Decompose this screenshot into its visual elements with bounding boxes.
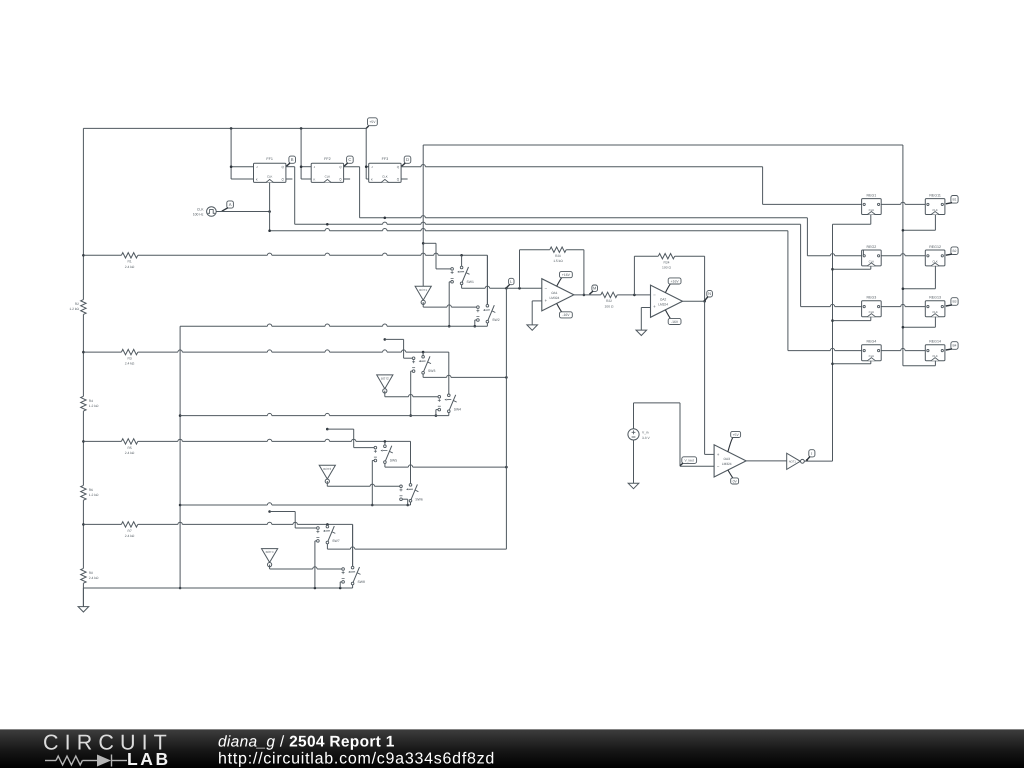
svg-text:R20: R20 (555, 254, 561, 258)
junction G2 tap (384, 338, 387, 341)
wire FF1 CLK drop (269, 182, 271, 230)
wire G1 bottom (180, 325, 267, 327)
resistor R3 2.4k row (82, 351, 85, 354)
wire FF2 JK feed (300, 128, 302, 179)
svg-text:diana_g / 2504 Report 1: diana_g / 2504 Report 1 (218, 734, 395, 751)
svg-text:SW3: SW3 (428, 369, 435, 373)
switch SW5 (384, 445, 387, 448)
svg-text:−: − (544, 286, 547, 291)
svg-text:100 Hz: 100 Hz (193, 213, 204, 217)
register REG1 (862, 199, 882, 215)
buffer BOT2 (377, 375, 393, 389)
svg-text:B3: B3 (952, 300, 956, 304)
wire SW1 minus drop (449, 281, 451, 283)
svg-text:−: − (653, 292, 656, 297)
svg-text:REG4: REG4 (867, 340, 877, 344)
svg-text:CLK: CLK (382, 175, 388, 179)
node flag N (707, 291, 713, 297)
wire top REG clock feed (422, 145, 424, 286)
voltage source V_in 3.8V (628, 429, 639, 440)
svg-text:BOT3: BOT3 (323, 467, 331, 471)
svg-text:A: A (229, 202, 232, 207)
svg-text:2.4 kΩ: 2.4 kΩ (125, 362, 135, 366)
wire L to OA1 (506, 287, 541, 289)
svg-text:+16V: +16V (562, 273, 571, 277)
wire OA3 out (746, 460, 787, 462)
wire SW1 top stub (461, 255, 463, 266)
power flag 0V OA3 (728, 470, 733, 478)
wire SW7 pivot line (326, 544, 328, 549)
svg-text:-16V: -16V (562, 313, 570, 317)
wire REG12 clk loop (934, 266, 936, 289)
wire OA2 out (683, 300, 705, 302)
switch SW7 (326, 525, 329, 528)
svg-text:+: + (653, 304, 656, 309)
power flag +16V OA1 (557, 277, 562, 286)
svg-text:R24: R24 (663, 261, 669, 265)
node flag I (809, 450, 815, 457)
wire REG1 Q to REG11 D (881, 203, 901, 205)
svg-text:SW5: SW5 (390, 459, 397, 463)
inverter NOT1 (787, 453, 801, 469)
wire A bus (270, 230, 326, 232)
wire N net to OA3 (704, 301, 706, 454)
svg-text:LAB: LAB (127, 749, 171, 769)
resistor R2 1.2k (81, 300, 86, 315)
svg-text:V_test: V_test (685, 458, 694, 462)
register REG2 (862, 250, 882, 266)
svg-text:M: M (593, 286, 596, 291)
resistor R24 100 feedback (633, 256, 635, 295)
wire SW2 top feed (486, 255, 488, 304)
junction G4 tap (268, 510, 271, 513)
svg-text:+: + (544, 298, 547, 303)
switch SW4 (448, 394, 451, 397)
svg-text:N: N (708, 291, 711, 296)
svg-text:-16V: -16V (671, 320, 679, 324)
svg-text:+16V: +16V (671, 279, 680, 283)
svg-text:FF2: FF2 (324, 157, 331, 161)
flip-flop FF2 (311, 163, 343, 182)
svg-text:REG13: REG13 (929, 296, 941, 300)
svg-text:V_in: V_in (642, 431, 649, 435)
wire REG4 clk loop (870, 361, 872, 364)
svg-text:2.4 kΩ: 2.4 kΩ (89, 576, 99, 580)
svg-text:REG11: REG11 (929, 193, 941, 197)
svg-text:CLK: CLK (267, 175, 273, 179)
wire +5V rail (83, 127, 366, 129)
svg-text:−: − (717, 464, 720, 469)
svg-text:LM324: LM324 (550, 296, 560, 300)
wire SW3 top stub (422, 352, 424, 355)
register REG3 (862, 301, 882, 317)
wire SW3 minus drop (411, 370, 413, 372)
resistor R8 2.4k (81, 568, 86, 583)
svg-text:CLK: CLK (325, 175, 331, 179)
svg-text:SW6: SW6 (415, 497, 422, 501)
wire SW7 minus drop (315, 540, 317, 542)
svg-text:SW8: SW8 (358, 580, 365, 584)
svg-text:OA1: OA1 (551, 291, 558, 295)
resistor R1 2.4k row (82, 254, 85, 257)
ground V_in (628, 483, 639, 488)
svg-text:BOT1: BOT1 (419, 288, 427, 292)
node flag V_test (682, 457, 697, 464)
wire SW2 pivot drop (486, 323, 488, 326)
svg-text:FF1: FF1 (266, 157, 273, 161)
wire G3 staple (327, 428, 353, 430)
reg2 stub (862, 250, 864, 255)
register REG14 (925, 345, 945, 361)
junction rail-FF2 (300, 127, 303, 130)
wire G3 bottom (180, 504, 267, 506)
svg-text:K: K (313, 177, 315, 181)
svg-text:NOT1: NOT1 (789, 461, 797, 464)
svg-text:+: + (717, 452, 720, 457)
wire REG13 clk loop (934, 317, 936, 328)
junction bus REG13 (902, 326, 905, 329)
svg-text:http://circuitlab.com/c9a334s6: http://circuitlab.com/c9a334s6df8zd (218, 751, 495, 768)
wire L net (461, 285, 463, 289)
ground OA2 (636, 330, 647, 335)
svg-text:REG1: REG1 (867, 193, 877, 197)
junction G1 tap (422, 242, 425, 245)
buffer BOT1 (415, 286, 431, 300)
svg-text:B: B (291, 157, 294, 162)
wire G1 staple (423, 242, 436, 244)
wire REG3 Q to REG13 D (881, 306, 901, 308)
resistor R5 2.4k row (82, 440, 85, 443)
wire SW5 pivot line (384, 463, 386, 467)
switch SW2 (486, 304, 489, 307)
node flag A (227, 201, 234, 208)
wire bottom rail (83, 587, 352, 589)
node flag C (347, 156, 354, 163)
wire G2 staple (385, 338, 404, 340)
svg-text:R2: R2 (75, 302, 79, 306)
svg-text:D: D (406, 157, 409, 162)
svg-text:REG3: REG3 (867, 296, 877, 300)
wire REG3 clk loop (870, 317, 872, 321)
junction CLK node (268, 210, 271, 213)
op-amp OA1 LM324 (542, 279, 574, 311)
svg-text:R22: R22 (606, 299, 612, 303)
wire G4 staple (270, 511, 296, 513)
ground ladder (82, 588, 84, 607)
svg-text:LM324: LM324 (722, 462, 732, 466)
buffer BOT4 (262, 549, 278, 563)
wire OA1 out (574, 294, 601, 296)
wire C net FF2Q (344, 166, 360, 168)
svg-text:2.4 kΩ: 2.4 kΩ (125, 265, 135, 269)
svg-text:R4: R4 (89, 399, 93, 403)
wire FF3 JK feed (365, 128, 367, 179)
op-amp OA2 LM324 (651, 285, 683, 317)
node flag B (289, 156, 296, 163)
wire NOT1 out (804, 460, 832, 462)
switch SW3 (422, 356, 425, 359)
wire BOT4 out (269, 565, 271, 569)
junction bus REG11 (902, 229, 905, 232)
wire CLK to FF1 (216, 211, 269, 213)
svg-text:B1: B1 (952, 197, 956, 201)
node flag L (509, 278, 514, 284)
wire B net FF1Q (286, 166, 295, 168)
switch SW6 (409, 484, 412, 487)
svg-text:B4: B4 (952, 344, 956, 348)
svg-text:REG12: REG12 (929, 245, 941, 249)
svg-text:1.2 kΩ: 1.2 kΩ (89, 493, 99, 497)
svg-text:R7: R7 (127, 529, 131, 533)
wire ladder rail (82, 128, 84, 299)
wire BOT2 out (384, 391, 386, 397)
switch SW8 (351, 566, 354, 569)
svg-text:BOT4: BOT4 (266, 550, 274, 554)
svg-text:OA3: OA3 (724, 457, 731, 461)
svg-text:BOT2: BOT2 (381, 377, 389, 381)
svg-text:OA2: OA2 (660, 297, 667, 301)
svg-text:100 Ω: 100 Ω (662, 266, 671, 270)
op-amp OA3 LM324 (714, 445, 746, 477)
svg-text:1.2 kΩ: 1.2 kΩ (69, 307, 79, 311)
resistor R7 2.4k row (82, 523, 85, 526)
wire ground return vertical (179, 326, 181, 588)
wire A drop to REG4 (787, 231, 789, 351)
svg-text:R5: R5 (127, 446, 131, 450)
wire D net FF3Q (401, 166, 421, 168)
clock source CLK1 100 Hz (207, 207, 217, 217)
junction rail-FF1 (230, 127, 233, 130)
register REG4 (862, 345, 882, 361)
wire OA1 +in gnd (532, 300, 542, 302)
wire B bus (295, 223, 383, 225)
wire SW4 minus loop (436, 409, 438, 411)
power flag +5V OA3 (728, 437, 733, 452)
node flag B4 (951, 342, 958, 350)
svg-text:2.4 kΩ: 2.4 kΩ (125, 451, 135, 455)
power flag +5V (366, 126, 369, 128)
wire G2 bottom (180, 415, 267, 417)
resistor R22 100 (601, 292, 617, 297)
node flag M (592, 285, 598, 291)
svg-text:1.2 kΩ: 1.2 kΩ (89, 404, 99, 408)
register REG11 (925, 199, 945, 215)
svg-text:2.4 kΩ: 2.4 kΩ (125, 534, 135, 538)
register REG12 (925, 250, 945, 266)
wire SW8 minus loop (340, 581, 342, 583)
wire FF1 JK feed (230, 128, 232, 179)
wire REG2 clk loop (870, 266, 872, 269)
wire R22 to OA2 (617, 294, 650, 296)
wire SW2 minus loop (475, 319, 477, 321)
wire SW8 top feed (352, 524, 354, 566)
resistor R20 1.5k feedback (519, 250, 521, 289)
svg-text:FF3: FF3 (382, 157, 389, 161)
wire SW6 pivot drop (410, 502, 412, 505)
svg-text:100 Ω: 100 Ω (605, 304, 614, 308)
junction G3 tap (326, 428, 329, 431)
wire SW6 top feed (410, 441, 412, 483)
resistor R4 1.2k (81, 396, 86, 411)
svg-text:REG14: REG14 (929, 340, 941, 344)
svg-text:+5V: +5V (733, 433, 740, 437)
svg-text:R6: R6 (89, 488, 93, 492)
svg-text:SW4: SW4 (454, 408, 461, 412)
svg-text:K: K (371, 177, 373, 181)
svg-text:0V: 0V (733, 479, 738, 483)
wire B drop to REG3 (800, 224, 802, 306)
svg-text:3.8 V: 3.8 V (642, 436, 650, 440)
wire SW8 pivot drop (352, 585, 354, 588)
wire REG14 clk loop (903, 365, 936, 367)
ground OA1 (527, 325, 538, 330)
switch SW1 (460, 266, 463, 269)
wire FF3 Qbar stub (401, 178, 408, 180)
svg-text:C: C (348, 157, 351, 162)
power flag +16V OA2 (665, 284, 670, 293)
wire SW3 pivot line (422, 374, 424, 377)
svg-text:K: K (256, 177, 258, 181)
svg-text:SW1: SW1 (467, 280, 474, 284)
svg-text:R1: R1 (127, 260, 131, 264)
svg-text:I: I (811, 451, 812, 456)
node flag D (404, 156, 411, 163)
power flag -16V OA1 (557, 304, 562, 313)
wire SW5 minus drop (372, 460, 374, 462)
node flag B3 (951, 298, 958, 306)
svg-text:R8: R8 (89, 571, 93, 575)
junction bus REG12 (902, 287, 905, 290)
wire SW5 top stub (384, 441, 386, 445)
node flag B1 (951, 196, 958, 204)
wire REG1 clk loop (870, 215, 872, 225)
wire SW7 top stub (326, 523, 328, 526)
wire SW4 top feed 2 (448, 393, 450, 395)
svg-text:R3: R3 (127, 357, 131, 361)
svg-text:B2: B2 (952, 249, 956, 253)
svg-text:REG2: REG2 (867, 245, 877, 249)
wire C bus (360, 217, 421, 219)
svg-text:+5V: +5V (369, 120, 376, 124)
svg-text:1.5 kΩ: 1.5 kΩ (553, 259, 563, 263)
resistor R6 1.2k (81, 485, 86, 500)
wire REG11 clk loop (934, 215, 936, 231)
wire BOT3 out (326, 481, 328, 486)
wire C drop to REG2 (806, 218, 808, 256)
flip-flop FF1 (254, 163, 286, 182)
svg-text:SW7: SW7 (332, 539, 339, 543)
wire V_in top (633, 403, 635, 429)
wire L bus (505, 288, 507, 549)
wire SW6 minus loop (402, 498, 407, 500)
wire OA2 +in gnd (641, 307, 650, 309)
wire SW4 pivot drop (448, 413, 450, 416)
power flag -16V OA2 (665, 310, 670, 319)
node flag B2 (951, 247, 958, 255)
svg-text:CLK: CLK (197, 207, 204, 211)
register REG13 (925, 301, 945, 317)
wire REG2 Q to REG12 D (881, 255, 901, 257)
flip-flop FF3 (369, 163, 401, 182)
svg-text:LM324: LM324 (658, 302, 668, 306)
wire V_in bottom (633, 440, 635, 483)
junction clk bus (831, 268, 834, 271)
svg-text:SW2: SW2 (492, 318, 499, 322)
buffer BOT3 (319, 465, 335, 479)
wire REG4 Q to REG14 D (881, 350, 901, 352)
wire FF2 Qbar stub (344, 178, 351, 180)
wire FF1 Qbar stub (286, 178, 293, 180)
wire BOT1 out (422, 302, 424, 307)
